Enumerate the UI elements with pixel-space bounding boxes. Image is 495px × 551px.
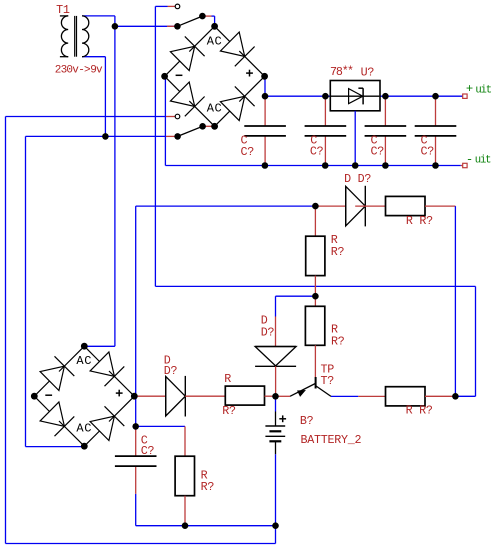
svg-text:C?: C? (371, 145, 385, 159)
svg-text:-: - (466, 153, 473, 167)
svg-text:R R?: R R? (406, 214, 433, 228)
svg-text:T?: T? (321, 374, 335, 388)
svg-text:AC: AC (207, 102, 223, 116)
svg-text:+: + (466, 82, 473, 96)
svg-text:C?: C? (241, 145, 255, 159)
svg-text:BATTERY_2: BATTERY_2 (301, 433, 362, 447)
svg-text:C?: C? (141, 444, 155, 458)
svg-text:R?: R? (331, 335, 345, 349)
svg-text:R?: R? (201, 480, 215, 494)
svg-text:D?: D? (261, 326, 275, 340)
svg-text:uit: uit (475, 155, 491, 167)
svg-text:B?: B? (300, 414, 314, 428)
svg-text:D?: D? (164, 364, 178, 378)
svg-text:C?: C? (421, 145, 435, 159)
svg-text:9v: 9v (90, 65, 103, 77)
svg-text:U?: U? (361, 66, 375, 80)
svg-text:230v: 230v (55, 65, 79, 77)
svg-text:R R?: R R? (406, 403, 433, 417)
svg-text:R?: R? (222, 404, 236, 418)
svg-text:**: ** (342, 64, 353, 78)
svg-text:AC: AC (76, 422, 92, 436)
svg-text:AC: AC (76, 354, 92, 368)
svg-text:->: -> (78, 65, 90, 77)
svg-text:R?: R? (331, 245, 345, 259)
svg-text:R: R (224, 372, 231, 386)
svg-text:AC: AC (207, 34, 223, 48)
svg-text:C?: C? (310, 145, 324, 159)
svg-text:uit: uit (475, 84, 491, 96)
svg-text:D D?: D D? (344, 172, 371, 186)
svg-text:T1: T1 (56, 3, 70, 17)
